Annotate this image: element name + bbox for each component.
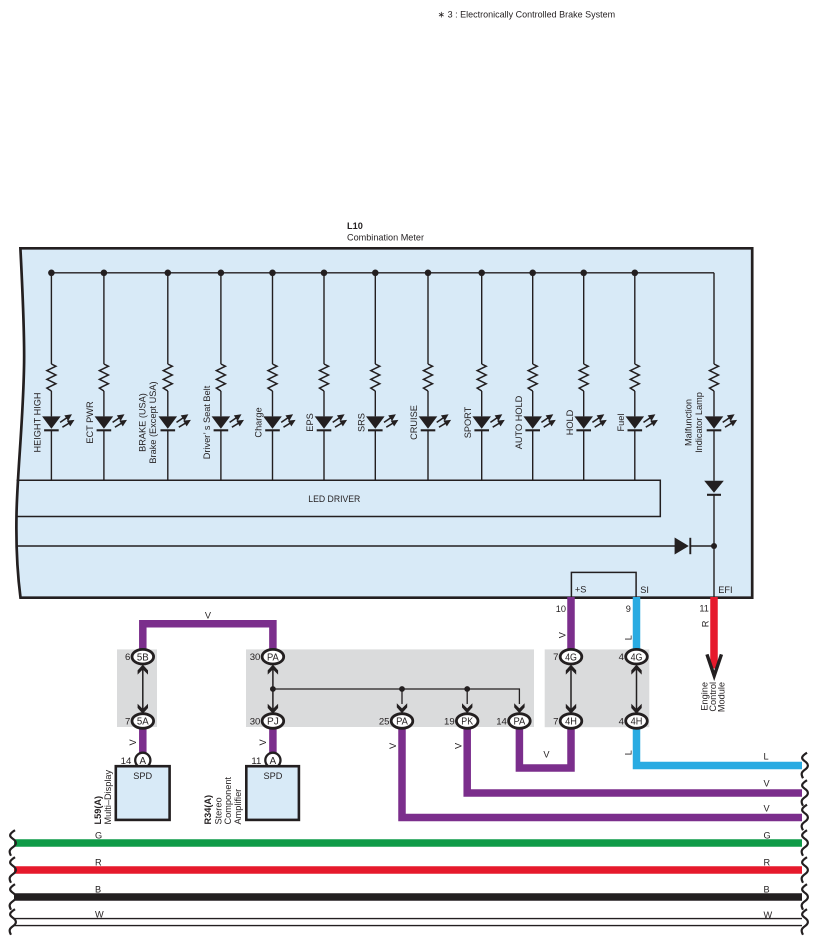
svg-text:Malfunction: Malfunction (684, 399, 694, 446)
svg-text:B: B (95, 885, 101, 895)
svg-text:4: 4 (619, 717, 625, 728)
svg-text:∗ 3 : Electronically Controlle: ∗ 3 : Electronically Controlled Brake Sy… (438, 10, 616, 20)
svg-text:W: W (95, 910, 104, 920)
svg-text:4G: 4G (631, 652, 643, 663)
svg-text:R: R (95, 858, 102, 868)
svg-text:PJ: PJ (267, 717, 279, 728)
svg-text:10: 10 (556, 604, 566, 614)
svg-text:R: R (764, 858, 771, 868)
svg-text:4G: 4G (565, 652, 577, 663)
svg-text:Fuel: Fuel (616, 414, 626, 432)
svg-text:L: L (624, 635, 634, 640)
svg-text:5A: 5A (137, 717, 149, 728)
svg-text:SPORT: SPORT (463, 406, 473, 438)
svg-text:L: L (624, 750, 634, 755)
svg-text:4H: 4H (565, 717, 577, 728)
svg-text:+S: +S (575, 585, 587, 595)
svg-text:Brake (Except USA): Brake (Except USA) (148, 381, 158, 463)
svg-text:4: 4 (619, 652, 625, 663)
svg-text:EPS: EPS (305, 413, 315, 431)
svg-text:ECT PWR: ECT PWR (85, 401, 95, 444)
svg-text:G: G (764, 831, 771, 841)
svg-text:V: V (454, 742, 464, 749)
svg-text:V: V (558, 631, 568, 638)
svg-text:W: W (764, 910, 773, 920)
svg-text:14: 14 (496, 717, 507, 728)
svg-text:7: 7 (553, 652, 558, 663)
svg-text:V: V (764, 804, 771, 814)
svg-text:19: 19 (444, 717, 455, 728)
svg-text:9: 9 (626, 604, 631, 614)
svg-text:Indicator Lamp: Indicator Lamp (694, 392, 704, 453)
svg-text:7: 7 (553, 717, 558, 728)
svg-text:V: V (388, 742, 398, 749)
svg-text:SPD: SPD (133, 771, 152, 781)
svg-text:HEIGHT HIGH: HEIGHT HIGH (33, 392, 43, 452)
svg-text:6: 6 (125, 652, 130, 663)
svg-text:SI: SI (640, 585, 649, 595)
svg-text:SRS: SRS (357, 413, 367, 432)
svg-text:4H: 4H (631, 717, 643, 728)
svg-text:CRUISE: CRUISE (409, 405, 419, 440)
svg-text:7: 7 (125, 717, 130, 728)
svg-text:30: 30 (250, 652, 261, 663)
svg-text:Multi–Display: Multi–Display (103, 769, 113, 824)
svg-text:5B: 5B (137, 652, 149, 663)
svg-text:PA: PA (514, 717, 526, 728)
svg-text:11: 11 (699, 603, 709, 613)
svg-text:R34(A): R34(A) (203, 795, 213, 825)
svg-text:L: L (764, 751, 769, 761)
svg-text:V: V (258, 739, 268, 746)
svg-text:Amplifier: Amplifier (233, 789, 243, 825)
svg-text:30: 30 (250, 717, 261, 728)
svg-text:R: R (700, 620, 710, 627)
svg-text:L59(A): L59(A) (93, 796, 103, 825)
svg-text:AUTO HOLD: AUTO HOLD (514, 395, 524, 449)
svg-text:PA: PA (396, 717, 408, 728)
svg-text:B: B (764, 885, 770, 895)
svg-text:Driver’ s Seat Belt: Driver’ s Seat Belt (202, 385, 212, 459)
svg-text:HOLD: HOLD (565, 409, 575, 435)
svg-text:SPD: SPD (263, 771, 282, 781)
svg-text:Module: Module (717, 682, 727, 712)
svg-text:25: 25 (379, 717, 390, 728)
svg-text:Charge: Charge (254, 407, 264, 437)
svg-text:L10: L10 (347, 221, 363, 231)
svg-text:V: V (764, 779, 771, 789)
svg-text:V: V (205, 611, 212, 621)
svg-text:Combination Meter: Combination Meter (347, 232, 424, 242)
svg-text:Stereo: Stereo (213, 797, 223, 824)
svg-text:G: G (95, 831, 102, 841)
svg-text:BRAKE (USA): BRAKE (USA) (138, 393, 148, 452)
svg-text:PK: PK (461, 717, 473, 728)
svg-text:V: V (543, 750, 550, 760)
svg-text:V: V (128, 739, 138, 746)
svg-text:Component: Component (223, 777, 233, 825)
svg-text:EFI: EFI (718, 585, 732, 595)
svg-text:LED DRIVER: LED DRIVER (308, 494, 360, 504)
svg-text:PA: PA (267, 652, 279, 663)
